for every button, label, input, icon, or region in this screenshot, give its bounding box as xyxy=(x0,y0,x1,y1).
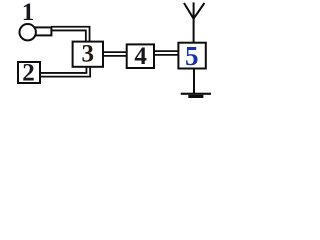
svg-text:3: 3 xyxy=(81,41,94,68)
svg-text:4: 4 xyxy=(134,43,147,70)
svg-text:5: 5 xyxy=(185,41,199,71)
svg-text:1: 1 xyxy=(22,0,35,26)
svg-text:2: 2 xyxy=(22,60,35,87)
